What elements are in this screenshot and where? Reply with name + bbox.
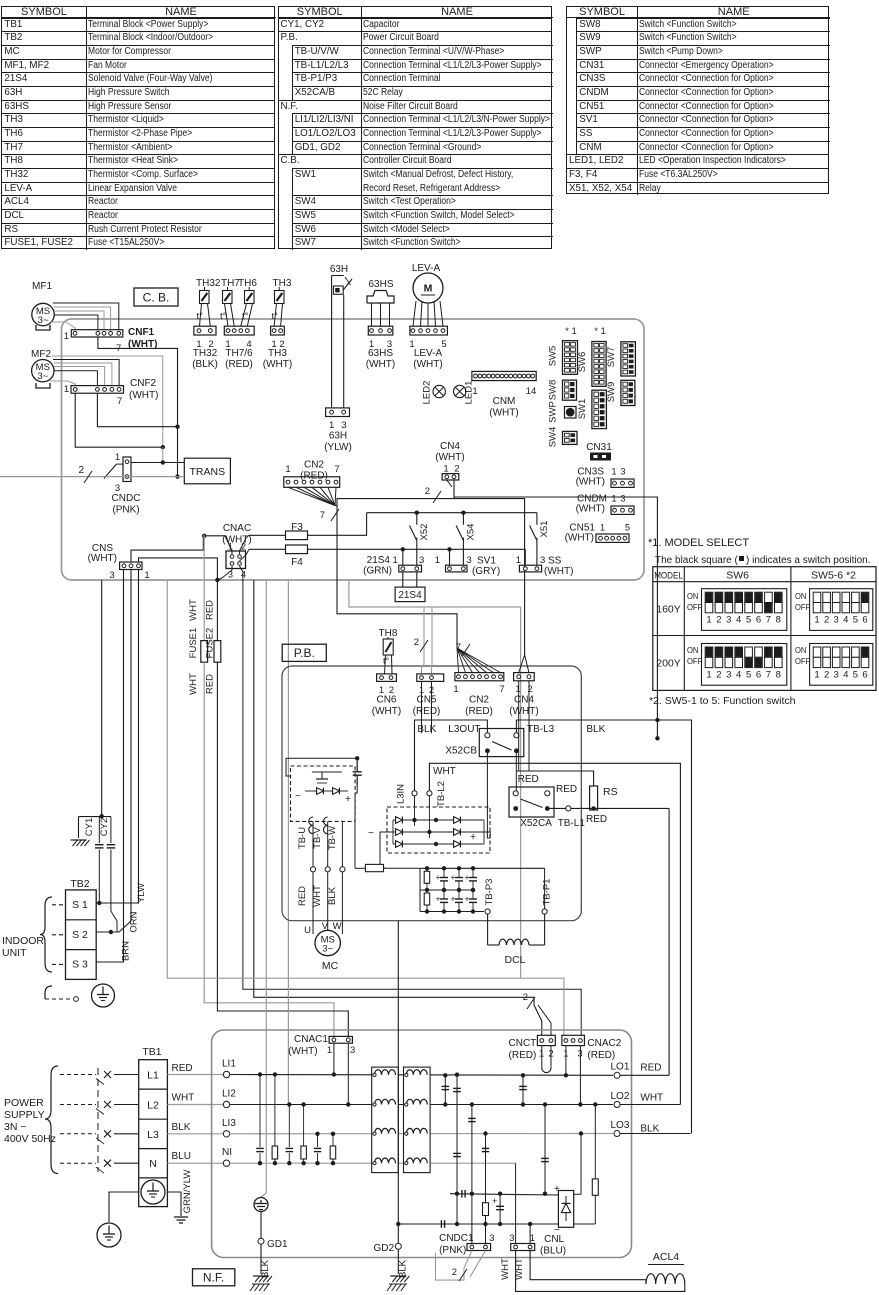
svg-text:+: + (470, 831, 476, 843)
coupling capacitor upper (461, 1190, 463, 1198)
svg-text:X52: X52 (419, 524, 430, 541)
svg-text:GD1: GD1 (267, 1239, 288, 1250)
gray wires down to CN5 (423, 607, 425, 654)
svg-text:6: 6 (756, 670, 761, 681)
svg-text:2: 2 (716, 670, 721, 681)
svg-text:L2: L2 (147, 1100, 159, 1112)
svg-text:1: 1 (515, 684, 520, 695)
svg-text:M: M (424, 283, 433, 295)
svg-text:MC: MC (322, 960, 339, 972)
svg-text:X52CB: X52CB (445, 746, 477, 757)
relay coil bus from F3 (367, 512, 537, 514)
fuse F4 (249, 548, 286, 550)
wire CNDC pin1 to TRANS (131, 462, 184, 464)
solenoid valve box 21S4 (402, 572, 404, 587)
svg-text:TB-P3: TB-P3 (484, 879, 495, 906)
contact arm at CNDC (104, 464, 116, 478)
svg-text:MF1: MF1 (32, 281, 52, 292)
svg-text:3: 3 (621, 494, 626, 504)
svg-text:SUPPLY: SUPPLY (4, 1109, 45, 1121)
svg-text:SW5: SW5 (548, 346, 559, 367)
svg-text:WHT: WHT (433, 766, 456, 777)
svg-text:(GRN): (GRN) (363, 566, 392, 577)
svg-text:1: 1 (706, 615, 711, 626)
svg-text:(WHT): (WHT) (263, 359, 292, 370)
svg-text:S 3: S 3 (72, 959, 88, 971)
connector TH32 (194, 326, 216, 335)
indoor unit brace (40, 897, 52, 972)
wire X52CB to BLK LO3 (516, 720, 691, 1134)
filter resistors to neutral (273, 1072, 277, 1076)
svg-text:3: 3 (540, 555, 545, 566)
svg-text:OFF: OFF (795, 657, 810, 666)
svg-text:4: 4 (736, 670, 741, 681)
gray wire CN2 area to CNAC2 (349, 581, 564, 1035)
wire caps to CNL pin1 (529, 1224, 531, 1244)
module dc capacitor (356, 761, 358, 771)
svg-text:6: 6 (862, 615, 867, 626)
dc bus into capacitor bank (384, 867, 421, 869)
svg-text:21S4: 21S4 (398, 590, 422, 601)
wire bundle CN4 to P.B. (447, 480, 452, 487)
svg-text:WHT: WHT (172, 1093, 195, 1104)
svg-text:OFF: OFF (687, 657, 702, 666)
LED1 indicator (454, 385, 466, 397)
svg-text:OFF: OFF (687, 603, 702, 612)
svg-text:TB-L1: TB-L1 (558, 818, 586, 829)
relay bypass wire to RS (516, 771, 593, 786)
svg-text:INDOOR: INDOOR (2, 935, 44, 947)
symbol table 1 (1, 6, 275, 249)
indoor unit ground lead (45, 986, 52, 999)
svg-text:1: 1 (706, 670, 711, 681)
svg-text:F4: F4 (291, 557, 303, 568)
filter capacitor column B (471, 1105, 473, 1245)
svg-text:BLK: BLK (172, 1122, 191, 1133)
svg-text:1: 1 (329, 420, 334, 431)
svg-text:3N ~: 3N ~ (4, 1121, 26, 1133)
svg-text:LED1: LED1 (464, 381, 475, 405)
svg-text:2: 2 (425, 486, 430, 497)
svg-text:CNDC: CNDC (112, 493, 141, 504)
svg-text:CNF2: CNF2 (130, 378, 157, 389)
bank resistors (424, 871, 430, 883)
svg-text:W: W (333, 921, 342, 932)
relay X52CA (509, 787, 554, 817)
symbol table 2 (278, 6, 553, 249)
svg-text:TH7/6: TH7/6 (225, 348, 253, 359)
svg-text:7: 7 (334, 464, 339, 475)
svg-text:(WHT): (WHT) (576, 477, 605, 488)
breaker dashed lines (60, 1074, 96, 1076)
wire to capacitor node (101, 580, 103, 816)
svg-text:t°: t° (383, 656, 390, 666)
svg-text:(PNK): (PNK) (439, 1245, 466, 1256)
svg-text:1: 1 (115, 452, 120, 463)
reactor DCL (487, 914, 489, 945)
svg-text:LI3: LI3 (222, 1118, 236, 1129)
svg-text:3: 3 (834, 615, 839, 626)
svg-text:1: 1 (443, 464, 448, 475)
svg-text:The black square (: The black square ( (655, 555, 738, 566)
svg-text:X52CA: X52CA (520, 818, 552, 829)
wires LEV-A to connector (413, 301, 416, 326)
svg-text:4: 4 (843, 615, 848, 626)
breaker dashed vertical (97, 1068, 99, 1172)
connector CNF2 (71, 386, 124, 394)
svg-text:+: + (492, 1196, 497, 1206)
svg-text:CNCT: CNCT (509, 1038, 537, 1049)
wire X52CB contact to X52CA (515, 751, 517, 791)
wire CNS pin3 to FUSE2 feed (139, 558, 218, 578)
svg-text:1: 1 (393, 555, 398, 566)
connector CN4 on P.B. (519, 655, 525, 673)
svg-text:TB-U: TB-U (297, 827, 308, 849)
svg-text:BLK: BLK (260, 1259, 271, 1278)
svg-text:RED: RED (297, 886, 308, 906)
svg-text:GD2: GD2 (373, 1243, 394, 1254)
output choke on TB-U (309, 817, 313, 834)
svg-text:(YLW): (YLW) (324, 442, 352, 453)
svg-text:4: 4 (736, 615, 741, 626)
bleed resistor (483, 1203, 489, 1216)
wire CNAC pin4 from F4 (240, 549, 250, 561)
wires MF1 to CNF1 (53, 303, 119, 330)
svg-text:1: 1 (435, 555, 440, 566)
svg-text:CY2: CY2 (99, 818, 110, 836)
svg-text:CN4: CN4 (514, 695, 534, 706)
wire NI to CNL (515, 1163, 517, 1243)
svg-text:SW4: SW4 (548, 427, 559, 448)
svg-text:1: 1 (64, 384, 69, 395)
svg-text:ON: ON (795, 592, 807, 601)
svg-text:(RED): (RED) (587, 1050, 615, 1061)
svg-text:+: + (345, 793, 351, 805)
svg-text:CN5: CN5 (416, 695, 436, 706)
svg-text:2: 2 (452, 1267, 457, 1278)
svg-text:+: + (465, 894, 470, 904)
P.B. label box (282, 644, 326, 661)
svg-text:5: 5 (625, 523, 630, 533)
svg-text:* 1: * 1 (594, 326, 606, 337)
svg-text:L3: L3 (147, 1129, 159, 1141)
resistor on LO2 drop (594, 1105, 596, 1179)
svg-text:(RED): (RED) (465, 706, 493, 717)
svg-text:(WHT): (WHT) (509, 706, 538, 717)
symbol table 3 (566, 6, 829, 194)
svg-text:(WHT): (WHT) (576, 504, 605, 515)
svg-text:5: 5 (746, 615, 751, 626)
svg-text:RED: RED (518, 774, 539, 785)
wires MF2 to CNF2 (52, 356, 163, 447)
svg-text:(WHT): (WHT) (129, 390, 158, 401)
svg-text:63HS: 63HS (368, 348, 393, 359)
svg-text:WHT: WHT (500, 1258, 511, 1280)
svg-text:3~: 3~ (37, 371, 48, 382)
svg-text:7: 7 (766, 615, 771, 626)
svg-text:8: 8 (776, 615, 781, 626)
svg-text:RED: RED (556, 784, 577, 795)
wire bundle CN2 fan-out (288, 487, 335, 505)
gray control wire to indoor unit (0, 476, 184, 478)
svg-text:BLK: BLK (640, 1124, 659, 1135)
dashed leads into TB2 (52, 904, 64, 906)
svg-text:CNAC1: CNAC1 (294, 1034, 328, 1045)
svg-text:TB-W: TB-W (327, 826, 338, 850)
connector CN6 (377, 674, 397, 682)
svg-text:TB-P1: TB-P1 (542, 879, 553, 906)
electrolytic capacitor (499, 1194, 501, 1224)
C.B. label box (134, 288, 178, 306)
svg-text:WHT: WHT (312, 885, 323, 907)
svg-text:RED: RED (640, 1063, 661, 1074)
svg-text:200Y: 200Y (656, 658, 681, 670)
svg-text:3: 3 (341, 420, 346, 431)
model select table (653, 567, 876, 691)
svg-text:(BLK): (BLK) (192, 359, 218, 370)
bus LI3 (230, 1133, 613, 1135)
filter capacitor column A (456, 1075, 458, 1224)
svg-text:(WHT): (WHT) (413, 359, 442, 370)
svg-text:1: 1 (453, 684, 458, 695)
ground terminal GD2 (397, 921, 399, 1243)
svg-text:CNDC1: CNDC1 (439, 1233, 474, 1244)
connector 63HS (368, 326, 393, 335)
svg-text:3: 3 (467, 555, 472, 566)
svg-text:X51: X51 (539, 521, 550, 538)
svg-text:UNIT: UNIT (2, 947, 27, 959)
dc rail upper (450, 1194, 558, 1195)
svg-text:14: 14 (526, 386, 537, 397)
svg-text:4: 4 (241, 570, 246, 580)
gray wire to GD1 (261, 580, 266, 1197)
svg-text:8: 8 (776, 670, 781, 681)
svg-text:NI: NI (222, 1147, 232, 1158)
svg-text:+: + (465, 872, 470, 882)
svg-text:LI1: LI1 (222, 1059, 236, 1070)
wire L3OUT to L3IN (415, 720, 488, 791)
svg-text:N: N (149, 1158, 157, 1170)
svg-text:1: 1 (600, 523, 605, 533)
N.F. label box (193, 1269, 235, 1286)
svg-text:6: 6 (756, 615, 761, 626)
svg-text:TH3: TH3 (273, 278, 292, 289)
connector CNAC2 (562, 1035, 585, 1045)
filter capacitor column E (544, 1105, 546, 1194)
current transformer loop (541, 1046, 543, 1068)
gray wire to LI2 (287, 580, 289, 1105)
svg-text:TB1: TB1 (142, 1046, 161, 1058)
svg-text:7: 7 (320, 510, 325, 521)
svg-text:TH32: TH32 (193, 348, 218, 359)
svg-text:BLK: BLK (417, 724, 436, 735)
filter capacitor column C (485, 1134, 487, 1245)
svg-text:L1: L1 (147, 1070, 159, 1082)
svg-text:6: 6 (862, 670, 867, 681)
common mode choke block 2 (404, 1067, 431, 1173)
svg-text:BLU: BLU (172, 1151, 191, 1162)
wire CNAC pin3 down (217, 566, 232, 580)
filter capacitors to neutral (258, 1072, 262, 1076)
controller circuit board C.B. outline (62, 319, 645, 580)
wire X52CB contact to bridge plus (487, 751, 490, 838)
wires CN5 down to relay bus (421, 681, 423, 720)
svg-text:1: 1 (612, 467, 617, 477)
TB1 ground cell (141, 1180, 165, 1204)
bridge diodes (396, 817, 403, 824)
svg-text:(WHT): (WHT) (88, 553, 117, 564)
svg-text:2: 2 (824, 670, 829, 681)
wire CNF2 pin2 to node (97, 393, 177, 427)
svg-text:3: 3 (109, 570, 114, 581)
svg-text:5: 5 (853, 615, 858, 626)
filter capacitor column D (522, 1075, 524, 1104)
svg-text:3: 3 (419, 555, 424, 566)
svg-text:GRN/YLW: GRN/YLW (182, 1170, 193, 1214)
svg-text:SW6: SW6 (726, 570, 749, 582)
svg-text:2: 2 (527, 684, 532, 695)
svg-text:+: + (436, 894, 441, 904)
diode box wires (574, 1134, 581, 1195)
svg-text:CNAC: CNAC (223, 523, 251, 534)
svg-text:ON: ON (795, 646, 807, 655)
svg-text:3~: 3~ (322, 944, 333, 955)
svg-text:5: 5 (746, 670, 751, 681)
svg-text:S 1: S 1 (72, 899, 88, 911)
svg-text:YLW: YLW (136, 883, 147, 903)
connector TH3 (271, 326, 285, 335)
svg-text:* 1: * 1 (565, 326, 577, 337)
svg-text:CNM: CNM (493, 396, 516, 407)
wire CNS pin2 to CNAC pin1 (131, 536, 232, 562)
svg-text:U: U (304, 925, 311, 936)
svg-text:−: − (368, 828, 374, 839)
svg-text:5: 5 (853, 670, 858, 681)
coupling capacitor lower (440, 1220, 442, 1228)
wire CNF2 pin1 junction (75, 393, 163, 447)
svg-text:1: 1 (516, 555, 521, 566)
svg-text:BRN: BRN (121, 941, 132, 961)
svg-text:(RED): (RED) (413, 706, 441, 717)
relay X52CB (479, 729, 524, 757)
svg-text:TH3: TH3 (268, 348, 287, 359)
svg-text:2: 2 (716, 615, 721, 626)
relay contact X52 (416, 513, 418, 525)
svg-text:3: 3 (621, 467, 626, 477)
svg-text:LEV-A: LEV-A (414, 348, 443, 359)
svg-text:1: 1 (327, 1045, 332, 1056)
svg-text:3: 3 (509, 1233, 514, 1244)
wire CNF1 pin2 to TRANS node (98, 337, 178, 477)
diode bridge module (387, 807, 490, 853)
svg-text:X54: X54 (466, 524, 477, 541)
svg-text:2: 2 (414, 637, 419, 648)
svg-text:LEV-A: LEV-A (412, 263, 441, 274)
series resistor on dc link (365, 864, 383, 871)
wires CN5 to relay coil X52CB (421, 681, 423, 733)
svg-text:(BLU): (BLU) (540, 1246, 566, 1257)
svg-text:3: 3 (834, 670, 839, 681)
svg-text:(WHT): (WHT) (489, 408, 518, 419)
svg-text:C. B.: C. B. (143, 291, 170, 305)
gray wire from CNDC1 (436, 1251, 472, 1281)
wire CNAC pin4 down (240, 566, 582, 1035)
svg-text:3~: 3~ (38, 315, 49, 326)
capacitor bank rails (420, 867, 545, 869)
svg-text:3: 3 (350, 1045, 355, 1056)
svg-text:63HS: 63HS (368, 279, 393, 290)
svg-text:WHT: WHT (188, 673, 199, 695)
svg-text:SW7: SW7 (606, 347, 617, 368)
svg-text:400V 50Hz: 400V 50Hz (4, 1133, 56, 1145)
svg-text:(WHT): (WHT) (544, 566, 573, 577)
wires CNAC2 into filter (565, 1046, 567, 1076)
wire bus to SS pin1 (524, 549, 526, 565)
svg-text:LO2: LO2 (611, 1091, 630, 1102)
svg-text:CN4: CN4 (440, 441, 460, 452)
svg-text:1: 1 (814, 670, 819, 681)
svg-text:4: 4 (843, 670, 848, 681)
svg-text:7: 7 (499, 684, 504, 695)
svg-text:CNF1: CNF1 (128, 327, 155, 338)
svg-text:RED: RED (205, 600, 216, 620)
svg-text:L3IN: L3IN (396, 784, 407, 804)
svg-text:ON: ON (687, 646, 699, 655)
TB1 ground left (109, 1192, 139, 1222)
svg-text:SW5-6 *2: SW5-6 *2 (811, 570, 856, 582)
chassis ground for CY (78, 817, 80, 838)
svg-text:DCL: DCL (504, 954, 525, 966)
svg-text:CNL: CNL (544, 1234, 564, 1245)
svg-text:7: 7 (117, 396, 122, 407)
svg-text:POWER: POWER (4, 1097, 44, 1109)
wires CN4 down to X52CA coil (518, 681, 520, 771)
wire CNAC pin2 from F3 (240, 535, 250, 554)
svg-text:BLK: BLK (398, 1259, 409, 1278)
svg-text:RS: RS (603, 786, 618, 798)
svg-text:+: + (451, 872, 456, 882)
svg-text:SW9: SW9 (606, 382, 617, 403)
svg-text:SWP: SWP (548, 401, 559, 423)
svg-text:SS: SS (548, 556, 562, 567)
noise filter board N.F. outline (212, 1030, 632, 1258)
resistor RS (590, 786, 598, 810)
svg-text:TB2: TB2 (70, 878, 89, 890)
svg-text:TRANS: TRANS (190, 466, 226, 478)
svg-text:(WHT): (WHT) (366, 359, 395, 370)
bus LI2 (230, 1104, 613, 1106)
svg-text:TB-L3: TB-L3 (527, 724, 555, 735)
bus NI (230, 1162, 516, 1164)
svg-text:3: 3 (489, 1233, 494, 1244)
svg-text:ON: ON (687, 592, 699, 601)
connector LEV-A (410, 326, 448, 335)
svg-text:SW8: SW8 (548, 380, 559, 401)
svg-text:+: + (436, 872, 441, 882)
transformer TRANS box (184, 458, 230, 484)
svg-text:1: 1 (612, 494, 617, 504)
svg-text:2: 2 (78, 465, 84, 476)
bank electrolytic capacitors (443, 868, 445, 877)
svg-text:SW6: SW6 (577, 352, 588, 373)
svg-text:CN31: CN31 (586, 442, 612, 453)
svg-text:SV1: SV1 (477, 556, 496, 567)
svg-text:WHT: WHT (188, 599, 199, 621)
relay supply bus from F4 (308, 548, 526, 550)
bus LI1 (230, 1074, 613, 1077)
svg-text:CN6: CN6 (376, 695, 396, 706)
svg-text:N.F.: N.F. (203, 1271, 224, 1285)
